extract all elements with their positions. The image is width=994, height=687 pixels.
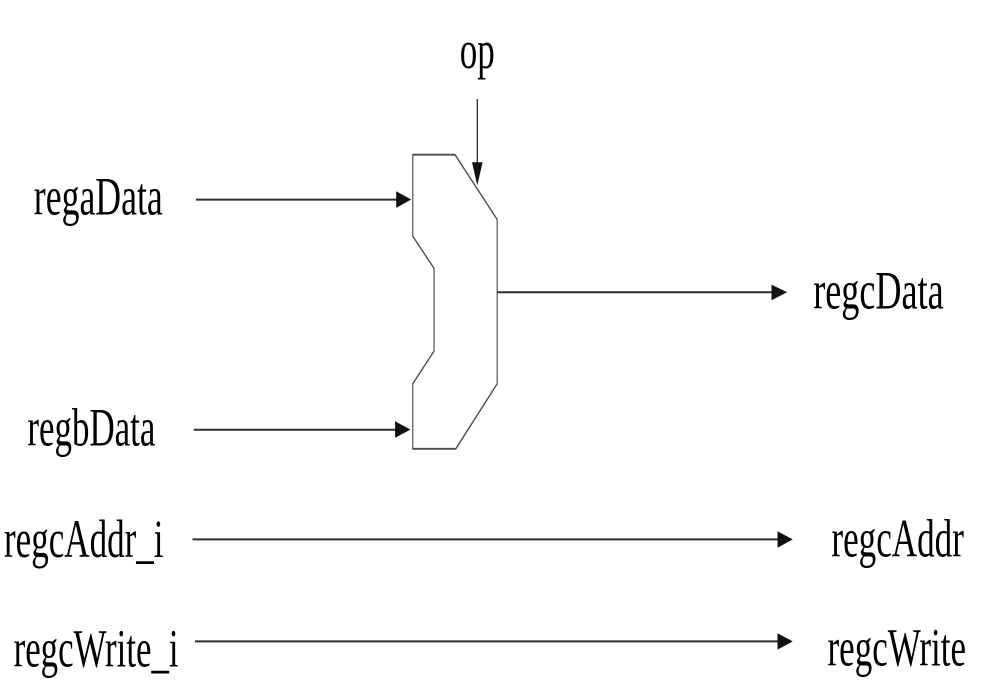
svg-text:regcWrite: regcWrite — [828, 618, 967, 678]
svg-text:regcWrite_i: regcWrite_i — [14, 619, 179, 679]
svg-text:regcData: regcData — [813, 260, 944, 320]
svg-text:regaData: regaData — [34, 167, 163, 227]
svg-text:regcAddr_i: regcAddr_i — [4, 509, 164, 569]
svg-text:regbData: regbData — [27, 397, 155, 457]
svg-text:regcAddr: regcAddr — [831, 509, 964, 569]
svg-text:op: op — [460, 20, 495, 80]
